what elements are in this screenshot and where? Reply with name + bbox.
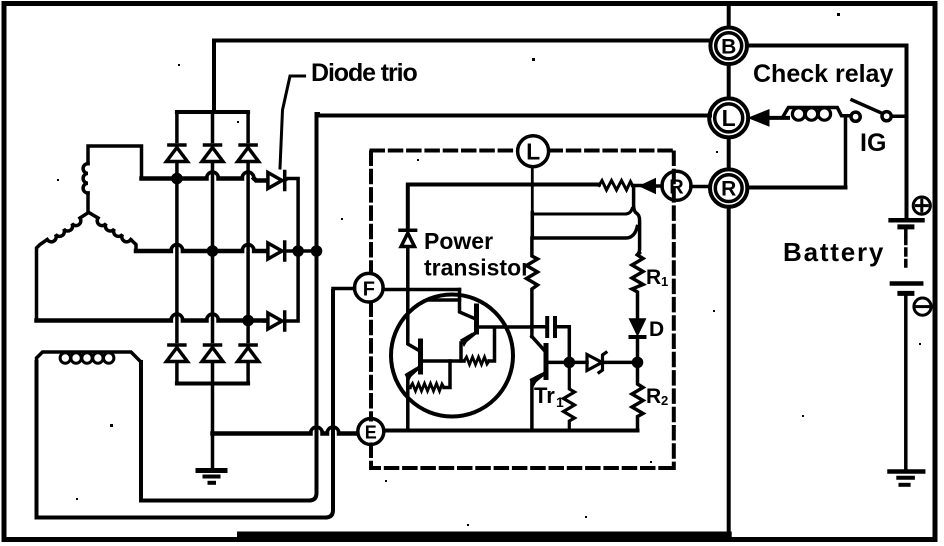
wire junction down to R1 [634,188,640,255]
svg-text:D: D [649,318,664,341]
pointer diode trio [280,76,305,168]
svg-text:E: E [365,423,377,443]
wire L-column down to field rail [309,114,317,501]
wire column 1 [175,112,179,384]
terminal E [358,419,384,445]
rotor field coil [37,352,142,364]
wire B to L [727,64,731,98]
svg-text:1: 1 [661,274,668,289]
diode negative 2 [202,345,223,362]
alternator case bottom line [240,532,729,538]
label diode trio [311,59,417,87]
wire rail rotor right [141,362,309,501]
wire case right edge below R [727,207,731,532]
arrowhead into L [750,111,788,126]
power transistor circle [391,295,513,417]
svg-text:Diode trio: Diode trio [311,59,417,87]
svg-text:transistor: transistor [424,255,530,281]
wire E left [213,427,358,434]
terminal R regulator [662,171,691,200]
ground battery [890,472,924,485]
label Tr1 [534,383,564,410]
wire F left [333,287,355,291]
svg-text:R: R [646,266,661,289]
zener diode [587,353,638,373]
svg-text:R: R [669,177,684,199]
svg-text:L: L [722,105,736,131]
wire rail rotor left [37,362,326,518]
check relay coil [783,108,850,121]
wire column 3 [246,112,250,384]
wire rectifier to ground [211,384,215,434]
label check relay [753,60,893,88]
check relay switch [851,100,907,121]
wire R right [747,186,845,190]
svg-text:IG: IG [860,129,886,157]
wire L regulator down [531,167,534,214]
capacitor [532,318,570,358]
svg-text:L: L [526,139,540,165]
wire F right [383,288,459,292]
diode negative 3 [238,345,259,362]
resistor base Tr1 [564,358,575,431]
wire L to junction [532,209,632,215]
wire phase 1 [142,172,265,182]
arrowhead to resistor [633,179,662,192]
regulator input resistor [527,238,538,337]
terminal L [709,98,748,137]
diode trio 2 [264,242,285,260]
label IG [860,129,886,157]
svg-text:Power: Power [424,228,493,254]
diode trio 1 [264,172,285,190]
label R2 [646,385,668,408]
svg-text:R: R [646,385,661,408]
wire L left [318,114,710,116]
wire B left (from rectifier top) [214,41,711,111]
wire phase 2 [136,245,264,255]
wire relay to R wire [844,117,848,188]
diode positive 1 [166,145,187,162]
svg-text:1: 1 [556,394,564,410]
diode D [631,320,645,367]
battery minus symbol [914,298,931,315]
wire trio output bus [285,179,321,322]
power transistor internals [406,290,532,431]
label R1 [646,266,668,289]
resistor R2 [632,362,643,430]
transistor Tr1 [531,337,588,431]
resistor R1 [632,253,643,318]
svg-text:Battery: Battery [783,237,885,267]
svg-text:F: F [363,279,375,301]
wire B stub to border [727,6,731,28]
wire regulator top rail [408,185,599,229]
wire fold lower [532,213,637,239]
battery cells [891,220,923,468]
wire R single to R double [691,185,710,189]
svg-text:R: R [721,178,736,201]
battery plus symbol [913,197,930,214]
terminal R [710,169,747,206]
svg-text:2: 2 [661,393,668,408]
ground alternator [198,434,225,483]
svg-text:B: B [721,36,736,59]
diode positive 3 [238,145,259,162]
wire phase 3 [37,314,265,324]
terminal F [355,273,384,302]
terminal L regulator [518,136,549,167]
stator winding right [89,212,136,251]
svg-text:Check relay: Check relay [753,60,893,88]
stator winding top [83,146,141,212]
wire B right to battery [747,46,907,219]
diode trio 3 [264,312,285,330]
resistor on R wire [599,181,633,191]
label D [649,318,664,341]
diode negative 1 [166,345,187,362]
rectifier bottom bus [177,382,248,386]
label power transistor [424,228,530,281]
wire column 2 [211,112,215,384]
wire E right rail [384,429,638,433]
stator winding left [37,212,89,318]
power transistor flyback diode [400,230,416,289]
regulator dashed box [371,151,674,469]
rectifier top bus [177,110,248,114]
wire F-column down to rail [326,291,334,518]
terminal B [710,28,747,65]
wire L to R [727,138,731,169]
svg-text:Tr: Tr [534,383,555,408]
label battery [783,237,885,267]
diode positive 2 [202,145,223,162]
